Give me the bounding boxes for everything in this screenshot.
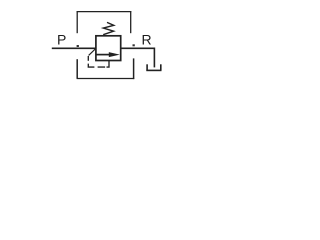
tank bottom — [146, 69, 161, 71]
frame top — [77, 11, 132, 13]
pilot dash horizontal — [98, 66, 106, 68]
pilot dash vertical — [87, 56, 89, 61]
svg-text:R: R — [142, 32, 152, 48]
pilot corner dash — [88, 64, 94, 67]
frame right lower — [133, 58, 135, 79]
arrow head — [109, 52, 120, 57]
wire P line — [52, 47, 96, 49]
tank right side — [160, 64, 162, 70]
frame left upper — [76, 11, 78, 33]
wire R drop — [153, 48, 155, 68]
frame left lower — [76, 59, 78, 78]
frame bottom — [77, 78, 135, 80]
valve body box — [96, 36, 121, 61]
node R connection dot — [133, 44, 135, 46]
node P connection dot — [77, 45, 79, 47]
tank left side — [146, 64, 148, 70]
pilot diagonal — [89, 49, 96, 56]
arrow shaft — [97, 54, 112, 56]
pilot end segment — [107, 61, 110, 67]
wire R line — [121, 47, 155, 49]
svg-text:P: P — [57, 32, 66, 48]
spring — [103, 22, 114, 34]
frame right upper — [130, 11, 132, 33]
